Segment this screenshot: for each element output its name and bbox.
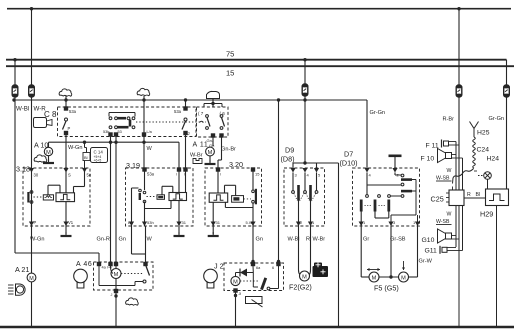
svg-text:M: M — [46, 150, 51, 156]
svg-text:Bl: Bl — [84, 155, 88, 160]
svg-text:A 21: A 21 — [15, 265, 29, 274]
svg-text:M: M — [401, 275, 406, 281]
svg-text:R: R — [467, 192, 471, 198]
svg-text:F2(G2): F2(G2) — [289, 283, 312, 292]
svg-text:Gn: Gn — [256, 237, 263, 243]
svg-text:L/a: L/a — [147, 130, 153, 134]
svg-text:M: M — [208, 150, 213, 156]
svg-text:M: M — [233, 279, 238, 285]
svg-text:H25: H25 — [477, 130, 490, 137]
svg-text:6: 6 — [272, 266, 274, 270]
svg-text:75: 75 — [226, 50, 234, 59]
svg-text:15: 15 — [226, 69, 234, 78]
svg-text:53a: 53a — [69, 109, 77, 114]
svg-text:F5 (G5): F5 (G5) — [374, 284, 399, 293]
svg-text:( 7: ( 7 — [198, 111, 204, 116]
svg-text:J: J — [111, 293, 113, 297]
svg-text:15: 15 — [255, 172, 260, 177]
svg-text:53a: 53a — [174, 109, 182, 114]
svg-text:Gn-R: Gn-R — [97, 237, 110, 243]
svg-text:(D10): (D10) — [340, 159, 358, 168]
svg-text:31: 31 — [182, 220, 187, 225]
svg-text:J: J — [188, 131, 190, 136]
svg-text:W-Gn: W-Gn — [30, 237, 45, 243]
svg-text:53a: 53a — [147, 172, 155, 177]
svg-text:53b: 53b — [103, 130, 109, 134]
svg-text:V1: V1 — [68, 220, 74, 225]
svg-text:30: 30 — [34, 173, 39, 178]
svg-text:M: M — [114, 272, 119, 278]
svg-text:Gr: Gr — [363, 237, 369, 243]
svg-text:Bl: Bl — [476, 192, 481, 198]
svg-text:H24: H24 — [487, 156, 500, 163]
svg-text:S: S — [68, 173, 71, 178]
svg-text:P: P — [34, 220, 37, 225]
svg-text:31: 31 — [216, 220, 221, 225]
svg-text:P: P — [68, 126, 71, 131]
svg-text:C25: C25 — [431, 195, 444, 204]
svg-text:Gr-Gn: Gr-Gn — [489, 116, 505, 122]
svg-text:C 14: C 14 — [94, 150, 104, 155]
svg-text:53h: 53h — [147, 220, 154, 225]
svg-text:W-Br: W-Br — [313, 237, 326, 243]
svg-text:W-Bl: W-Bl — [16, 106, 29, 113]
svg-text:D7: D7 — [344, 150, 353, 159]
svg-text:5e: 5e — [87, 173, 92, 178]
svg-text:J 2: J 2 — [214, 262, 224, 271]
svg-text:B: B — [128, 220, 131, 225]
svg-text:+6+5: +6+5 — [94, 159, 102, 163]
svg-text:R: R — [306, 237, 310, 243]
svg-text:W-Br: W-Br — [190, 153, 203, 159]
svg-text:W-Bl: W-Bl — [288, 237, 300, 243]
svg-text:W: W — [447, 212, 452, 218]
svg-text:Gr-Gn: Gr-Gn — [370, 110, 386, 116]
svg-text:5.W: 5.W — [246, 220, 253, 225]
svg-text:Gn: Gn — [119, 237, 126, 243]
svg-text:G10: G10 — [422, 237, 435, 244]
svg-text:3.19: 3.19 — [126, 161, 140, 170]
svg-text:W-Gn: W-Gn — [68, 145, 83, 151]
svg-text:Gn-Br: Gn-Br — [221, 147, 236, 153]
svg-text:M: M — [29, 276, 34, 282]
svg-text:F 11: F 11 — [426, 143, 439, 150]
svg-text:M: M — [302, 274, 307, 280]
svg-text:Gr-W: Gr-W — [419, 259, 433, 265]
svg-text:C24: C24 — [477, 147, 490, 154]
svg-text:M: M — [372, 275, 377, 281]
svg-text:R-Br: R-Br — [443, 117, 455, 123]
svg-text:G11: G11 — [425, 248, 438, 255]
svg-text:W: W — [447, 168, 452, 174]
svg-text:W: W — [147, 146, 153, 152]
svg-text:W: W — [147, 237, 153, 243]
svg-text:A 46: A 46 — [76, 261, 92, 268]
svg-text:D9: D9 — [285, 146, 294, 155]
svg-text:(D8): (D8) — [281, 155, 295, 164]
svg-text:F 10: F 10 — [421, 156, 435, 163]
svg-text:Jl: Jl — [239, 292, 242, 296]
svg-text:Gr-SB: Gr-SB — [390, 237, 406, 243]
svg-text:H29: H29 — [480, 210, 493, 219]
svg-text:53: 53 — [118, 130, 122, 134]
